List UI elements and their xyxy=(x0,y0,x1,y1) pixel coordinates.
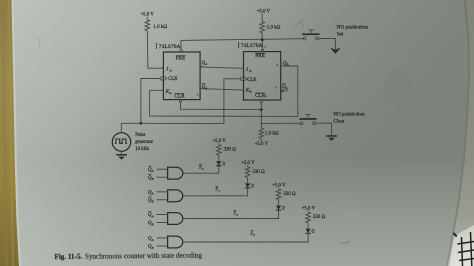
svg-text:B: B xyxy=(152,200,154,204)
svg-text:330 Ω: 330 Ω xyxy=(252,170,265,175)
svg-text:10 kHz: 10 kHz xyxy=(135,147,149,152)
U2 CLK bubble+wedge xyxy=(240,77,243,80)
and-gate U3A (S0 decode) xyxy=(168,167,183,179)
wire FF2 PRE drop xyxy=(261,40,263,50)
svg-text:A: A xyxy=(151,169,154,173)
svg-text:B: B xyxy=(287,62,289,66)
svg-text:Synchronous counter with state: Synchronous counter with state decoding xyxy=(85,251,203,260)
resistor R6 330 ohm xyxy=(278,188,280,189)
svg-text:+5.0 V: +5.0 V xyxy=(255,142,269,147)
resistor R4 330 ohm xyxy=(218,143,220,144)
svg-text:74LS76A: 74LS76A xyxy=(241,43,263,49)
svg-text:330 Ω: 330 Ω xyxy=(313,215,326,220)
svg-text:B: B xyxy=(152,246,154,250)
wire CLR common line xyxy=(181,102,262,109)
led D3 xyxy=(276,206,281,210)
wire PRE common line xyxy=(181,39,303,50)
wire U3B output to LED column xyxy=(183,188,248,196)
svg-text:A: A xyxy=(168,91,171,95)
svg-text:CLK: CLK xyxy=(247,78,257,83)
wire clear branch to pushbutton xyxy=(261,122,300,124)
svg-text:1.0 kΩ: 1.0 kΩ xyxy=(267,26,281,31)
svg-text:Set: Set xyxy=(337,31,344,37)
U2 PRE bubble xyxy=(261,49,263,51)
resistor R7 330 ohm xyxy=(307,211,309,212)
and-gate U3D (S3 decode) xyxy=(168,236,183,248)
second page circuit fragment xyxy=(454,232,474,266)
svg-text:+5.0 V: +5.0 V xyxy=(257,9,271,14)
wire U3A input stubs xyxy=(157,168,168,170)
second page bottom-right xyxy=(450,225,474,266)
right page edge shadow band xyxy=(446,0,474,266)
wire U3C input stubs xyxy=(157,214,168,216)
svg-text:A: A xyxy=(151,238,154,242)
svg-text:+5.0 V: +5.0 V xyxy=(212,139,226,144)
and-gate U3B (S1 decode) xyxy=(168,190,183,202)
wire CLK1 from pulse line xyxy=(141,79,160,124)
svg-text:A: A xyxy=(204,62,207,66)
pushbutton S2 Clear (NO) xyxy=(299,115,316,125)
svg-text:CLR: CLR xyxy=(175,93,186,99)
op IC label 74LS76A (U1) xyxy=(156,43,158,49)
svg-text:1.0 kΩ: 1.0 kΩ xyxy=(153,25,167,30)
node junction dot pulse/CLK1 xyxy=(140,122,143,125)
svg-text:A: A xyxy=(169,69,172,73)
svg-text:74LS76A: 74LS76A xyxy=(159,44,181,50)
op IC label 74LS76A (U2) xyxy=(238,42,240,48)
led D4 xyxy=(305,229,310,233)
wire QB feedback to KA xyxy=(150,66,298,116)
wire FF2 CLR down to R3 xyxy=(260,103,262,129)
wire pulse gen to ground xyxy=(121,151,123,154)
svg-text:NO pushbutton: NO pushbutton xyxy=(333,112,365,118)
pin tick marks (pin numbers, blurred) xyxy=(197,46,278,97)
wire U3D input stubs xyxy=(157,237,168,239)
U2 CLR bubble xyxy=(260,100,262,102)
svg-text:generator: generator xyxy=(135,140,153,145)
resistor R1 1.0k pullup JA xyxy=(146,17,148,20)
flip-flop U2 box xyxy=(244,52,281,100)
U1 CLK bubble+wedge xyxy=(160,77,163,80)
svg-text:CLK: CLK xyxy=(168,77,178,82)
svg-text:PRE: PRE xyxy=(255,53,265,59)
svg-text:+5.0 V: +5.0 V xyxy=(302,207,316,212)
wire QA to JB xyxy=(200,67,243,68)
resistor R3 1.0k clear pull xyxy=(259,128,264,138)
svg-text:B: B xyxy=(249,90,251,94)
U1 PRE bubble xyxy=(180,50,182,52)
wire QbarA to KB xyxy=(200,89,243,91)
svg-text:A: A xyxy=(151,214,154,218)
resistor R2 1.0k pullup PRE xyxy=(261,14,263,22)
wire U3D output to LED column xyxy=(183,233,308,242)
svg-text:+5.0 V: +5.0 V xyxy=(272,183,286,188)
wire pulse line to CLK2 xyxy=(121,79,240,124)
svg-text:PRE: PRE xyxy=(176,55,186,61)
svg-text:B: B xyxy=(286,86,288,90)
svg-text:NO pushbutton: NO pushbutton xyxy=(337,24,369,30)
flip-flop U1 box xyxy=(163,52,200,100)
ground (clear, chassis) xyxy=(326,135,337,137)
svg-text:B: B xyxy=(152,222,154,226)
svg-text:A: A xyxy=(204,86,207,90)
wire R1 to JA xyxy=(147,31,163,69)
svg-text:B: B xyxy=(152,177,154,181)
and-gate U3C (S2 decode) xyxy=(168,213,183,225)
caption Fig. 11-5 xyxy=(54,251,202,261)
pulse generator source xyxy=(120,123,122,133)
svg-text:A: A xyxy=(151,192,154,196)
node CLR junction xyxy=(260,108,263,111)
node PRE junction xyxy=(261,38,264,41)
wire U3B input stubs xyxy=(157,191,168,193)
svg-text:1.0 kΩ: 1.0 kΩ xyxy=(265,132,279,137)
svg-text:330 Ω: 330 Ω xyxy=(283,192,296,197)
page lit edge xyxy=(12,0,22,266)
wire U3C output to LED column xyxy=(183,210,279,218)
U1 CLR bubble xyxy=(179,100,181,102)
svg-text:330 Ω: 330 Ω xyxy=(224,148,237,153)
svg-text:CLR: CLR xyxy=(255,93,266,99)
svg-text:Clear: Clear xyxy=(333,119,344,125)
pushbutton S1 Set (NO) xyxy=(302,30,319,40)
svg-text:B: B xyxy=(249,69,251,73)
led D2 xyxy=(245,183,250,187)
wire U3A output to LED column xyxy=(183,166,219,174)
ground (pulse gen) xyxy=(116,154,127,156)
ground (set, arrow style) xyxy=(331,48,340,53)
wood table strip left xyxy=(0,0,19,266)
led D1 xyxy=(216,161,221,165)
wire R2 down to PRE node xyxy=(261,33,263,40)
wire clear btn to ground xyxy=(316,123,332,135)
node QbarB stub xyxy=(281,90,288,92)
svg-text:Pulse: Pulse xyxy=(135,133,145,138)
resistor R5 330 ohm xyxy=(247,165,249,166)
smudges (photo artifacts) xyxy=(295,19,304,27)
svg-text:Fig. 11-5.: Fig. 11-5. xyxy=(54,253,82,261)
wire set btn to ground xyxy=(318,38,335,49)
svg-text:+5.0 V: +5.0 V xyxy=(241,161,255,166)
